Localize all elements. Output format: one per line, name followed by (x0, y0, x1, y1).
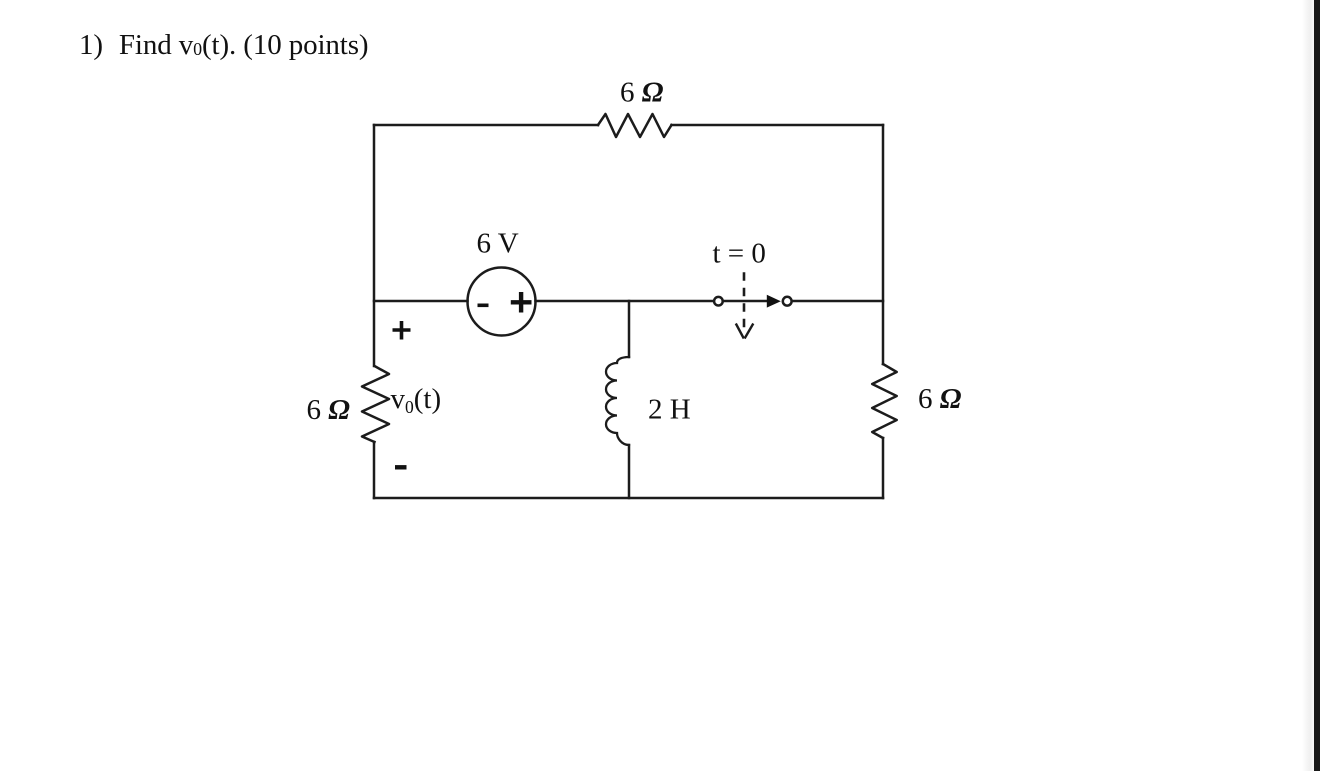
svg-text:6 Ω: 6 Ω (307, 394, 351, 426)
svg-text:6 V: 6 V (477, 228, 519, 260)
svg-text:2 H: 2 H (648, 394, 691, 426)
svg-text:t = 0: t = 0 (713, 238, 766, 270)
svg-text:6 Ω: 6 Ω (918, 383, 962, 415)
svg-text:v0(t): v0(t) (391, 383, 442, 417)
svg-text:6 Ω: 6 Ω (620, 77, 664, 109)
